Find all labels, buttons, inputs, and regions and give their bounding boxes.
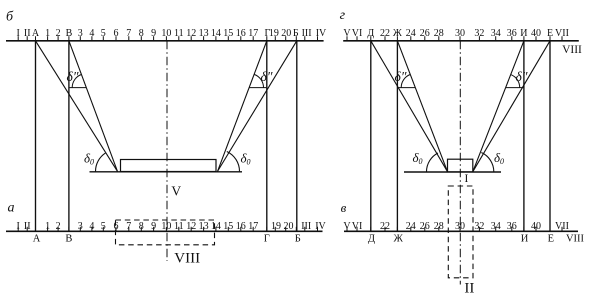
svg-text:δ″: δ″ [67, 69, 79, 84]
svg-text:16: 16 [236, 221, 246, 232]
svg-text:Д: Д [367, 28, 374, 39]
tick 4 bottom-left axis [91, 227, 93, 232]
top-right scale axis [343, 40, 579, 42]
svg-text:36: 36 [507, 221, 517, 232]
tick 26 top-right axis [424, 36, 426, 41]
svg-text:1: 1 [45, 28, 50, 39]
tick V top-right axis [346, 36, 348, 41]
svg-text:3: 3 [78, 28, 83, 39]
svg-text:VIII: VIII [562, 44, 582, 56]
tick 15 top-left axis [227, 36, 229, 41]
tick 32 bottom-right axis [478, 227, 480, 232]
svg-text:19: 19 [269, 28, 279, 39]
svg-text:VII: VII [555, 28, 569, 39]
vertical line Zh(cyr) [396, 41, 398, 232]
tick 16 bottom-left axis [240, 227, 242, 232]
svg-text:δ″: δ″ [395, 69, 407, 84]
svg-text:I: I [17, 28, 20, 39]
tick 6 top-left axis [115, 36, 117, 41]
svg-text:II: II [464, 280, 474, 296]
tick II top-left axis [26, 36, 28, 41]
svg-text:III: III [302, 28, 312, 39]
tick 26 bottom-right axis [424, 227, 426, 232]
svg-text:В: В [65, 234, 72, 245]
tick Г bottom-left axis [266, 227, 268, 232]
svg-text:36: 36 [507, 28, 517, 39]
svg-text:I: I [17, 221, 20, 232]
tick 19 top-left axis [274, 36, 276, 41]
arc delta'' at I [511, 75, 520, 88]
svg-text:11: 11 [174, 28, 184, 39]
svg-text:40: 40 [531, 28, 541, 39]
arc delta0 left r-half [427, 153, 438, 172]
tick Ж top-right axis [396, 36, 398, 41]
svg-text:19: 19 [271, 221, 281, 232]
vertical line A [35, 41, 37, 232]
svg-text:δ0: δ0 [240, 151, 250, 167]
bottom-right scale axis [344, 230, 578, 232]
tick 13 bottom-left axis [203, 227, 205, 232]
svg-text:26: 26 [420, 28, 430, 39]
svg-text:26: 26 [420, 221, 430, 232]
arc delta0 left [96, 153, 106, 171]
center dash-dot line right half [459, 41, 461, 285]
svg-text:δ″: δ″ [261, 69, 273, 84]
tick III top-left axis [304, 36, 306, 41]
diagonal A to left corner [36, 41, 118, 172]
svg-text:в: в [341, 200, 347, 215]
svg-text:VII: VII [555, 221, 569, 232]
tick 34 top-right axis [495, 36, 497, 41]
vertical line G(cyr) [266, 41, 268, 232]
svg-text:16: 16 [236, 28, 246, 39]
tick 30 bottom-right axis [459, 227, 461, 232]
tick 8 top-left axis [140, 36, 142, 41]
tick А bottom-left axis [35, 227, 37, 232]
svg-text:10: 10 [161, 28, 171, 39]
tick VI top-right axis [356, 36, 358, 41]
svg-text:V: V [343, 28, 351, 39]
tick 9 bottom-left axis [153, 227, 155, 232]
tick VI bottom-right axis [356, 227, 358, 232]
svg-text:15: 15 [223, 221, 233, 232]
svg-text:32: 32 [474, 28, 484, 39]
svg-text:И: И [521, 234, 529, 245]
svg-text:А: А [32, 28, 40, 39]
svg-text:δ0: δ0 [84, 151, 94, 167]
svg-text:VIII: VIII [174, 250, 200, 266]
svg-text:V: V [343, 221, 351, 232]
diagonal E to right corner r-half [473, 41, 550, 172]
vertical line V(cyr) [68, 41, 70, 232]
svg-text:2: 2 [56, 28, 61, 39]
svg-text:δ0: δ0 [412, 150, 422, 166]
svg-text:20: 20 [281, 28, 291, 39]
tick 17 top-left axis [252, 36, 254, 41]
svg-text:9: 9 [151, 28, 156, 39]
arc delta0 right [227, 151, 240, 171]
svg-text:1: 1 [45, 221, 50, 232]
diagonal G to right corner [218, 41, 267, 172]
tick 10 top-left axis [165, 36, 167, 41]
svg-text:9: 9 [151, 221, 156, 232]
tick V bottom-right axis [346, 227, 348, 232]
angle base line at V diag [69, 87, 86, 89]
tick VII top-right axis [561, 36, 563, 41]
svg-text:IV: IV [315, 221, 326, 232]
tick И top-right axis [523, 36, 525, 41]
tick В top-left axis [68, 36, 70, 41]
svg-text:34: 34 [491, 28, 501, 39]
svg-text:Г: Г [264, 234, 270, 245]
svg-text:13: 13 [199, 221, 209, 232]
svg-text:И: И [520, 28, 527, 39]
tick 30 top-right axis [459, 36, 461, 41]
bottom-left scale axis [6, 230, 323, 232]
svg-text:3: 3 [78, 221, 83, 232]
tick И bottom-right axis [523, 227, 525, 232]
svg-text:24: 24 [406, 28, 416, 39]
arc delta0 right r-half [481, 153, 493, 172]
tick 17 bottom-left axis [252, 227, 254, 232]
svg-text:7: 7 [126, 221, 131, 232]
svg-text:Е: Е [548, 234, 554, 245]
svg-text:I: I [464, 173, 468, 185]
tick 12 bottom-left axis [190, 227, 192, 232]
tall dashed box II [448, 186, 473, 278]
tick 24 bottom-right axis [410, 227, 412, 232]
svg-text:Б: Б [293, 28, 299, 39]
svg-text:20: 20 [284, 221, 294, 232]
tick 4 top-left axis [91, 36, 93, 41]
reed rectangle right half [448, 159, 473, 172]
svg-text:Ж: Ж [393, 28, 402, 39]
tick 19 bottom-left axis [274, 227, 276, 232]
svg-text:22: 22 [380, 221, 390, 232]
tick 8 bottom-left axis [140, 227, 142, 232]
center dash-dot line left half [166, 41, 168, 261]
tick 14 bottom-left axis [215, 227, 217, 232]
tick 2 top-left axis [57, 36, 59, 41]
arc delta'' at Zh [401, 75, 410, 88]
tick Б top-left axis [295, 36, 297, 41]
svg-text:6: 6 [114, 28, 119, 39]
tick 24 top-right axis [410, 36, 412, 41]
tick В bottom-left axis [68, 227, 70, 232]
svg-text:14: 14 [211, 221, 221, 232]
arc delta'' at G [254, 75, 263, 88]
tick 22 bottom-right axis [384, 227, 386, 232]
tick 36 bottom-right axis [511, 227, 513, 232]
svg-text:24: 24 [406, 221, 416, 232]
tick Е bottom-right axis [549, 227, 551, 232]
tick 2 bottom-left axis [57, 227, 59, 232]
tick 5 bottom-left axis [102, 227, 104, 232]
tick 20 bottom-left axis [285, 227, 287, 232]
tick 16 top-left axis [240, 36, 242, 41]
svg-text:Б: Б [295, 234, 301, 245]
diagonal V to left corner [69, 41, 118, 172]
tick Д bottom-right axis [370, 227, 372, 232]
svg-text:14: 14 [211, 28, 221, 39]
tick 9 top-left axis [153, 36, 155, 41]
diagonal Zh to left corner r-half [397, 41, 447, 172]
diagonal I to right corner r-half [473, 41, 524, 172]
tick I bottom-left axis [17, 227, 19, 232]
svg-text:4: 4 [89, 28, 94, 39]
svg-text:34: 34 [491, 221, 501, 232]
tick 34 bottom-right axis [495, 227, 497, 232]
tick 40 bottom-right axis [535, 227, 537, 232]
svg-text:22: 22 [380, 28, 390, 39]
svg-text:VI: VI [352, 221, 363, 232]
tick 15 bottom-left axis [227, 227, 229, 232]
tick IV bottom-left axis [317, 227, 319, 232]
svg-text:7: 7 [126, 28, 131, 39]
svg-text:17: 17 [248, 28, 258, 39]
arc delta'' at V [72, 74, 81, 87]
tick VII bottom-right axis [561, 227, 563, 232]
tick 36 top-right axis [511, 36, 513, 41]
svg-text:28: 28 [434, 28, 444, 39]
svg-text:12: 12 [186, 221, 196, 232]
svg-text:15: 15 [223, 28, 233, 39]
svg-text:VIII: VIII [566, 234, 585, 245]
diagonal B to right corner [218, 41, 297, 172]
baseline right half [404, 171, 501, 173]
tick 11 bottom-left axis [178, 227, 180, 232]
svg-text:40: 40 [531, 221, 541, 232]
svg-text:а: а [8, 200, 15, 215]
svg-text:А: А [33, 234, 41, 245]
svg-text:В: В [66, 28, 73, 39]
tick Б bottom-left axis [295, 227, 297, 232]
svg-text:Е: Е [547, 28, 553, 39]
vertical line D(cyr) [370, 41, 372, 232]
tick I top-left axis [17, 36, 19, 41]
tick 28 bottom-right axis [438, 227, 440, 232]
svg-text:г: г [340, 8, 346, 23]
tick III bottom-left axis [304, 227, 306, 232]
tick Ж bottom-right axis [396, 227, 398, 232]
tick 22 top-right axis [384, 36, 386, 41]
svg-text:Ж: Ж [393, 234, 403, 245]
svg-text:II: II [24, 28, 31, 39]
angle base line at G diag [250, 87, 267, 89]
tick 6 bottom-left axis [115, 227, 117, 232]
tick 1 top-left axis [47, 36, 49, 41]
vertical line E(cyr) [549, 41, 551, 232]
svg-text:δ″: δ″ [516, 69, 528, 84]
svg-text:б: б [6, 10, 14, 25]
svg-text:12: 12 [186, 28, 196, 39]
svg-text:V: V [171, 184, 181, 199]
tick Г top-left axis [266, 36, 268, 41]
tick Е top-right axis [549, 36, 551, 41]
svg-text:2: 2 [56, 221, 61, 232]
tick 10 bottom-left axis [165, 227, 167, 232]
tick II bottom-left axis [26, 227, 28, 232]
tick 3 bottom-left axis [79, 227, 81, 232]
tick 28 top-right axis [438, 36, 440, 41]
reed rectangle left half [121, 160, 217, 172]
tick Д top-right axis [370, 36, 372, 41]
tick 1 bottom-left axis [47, 227, 49, 232]
svg-text:II: II [24, 221, 31, 232]
svg-text:VI: VI [352, 28, 363, 39]
svg-text:IV: IV [316, 28, 327, 39]
vertical line I(cyr) [523, 41, 525, 232]
svg-text:30: 30 [455, 28, 465, 39]
svg-text:III: III [301, 221, 311, 232]
tick 11 top-left axis [178, 36, 180, 41]
svg-text:17: 17 [248, 221, 258, 232]
svg-text:11: 11 [174, 221, 184, 232]
dashed box VIII [116, 220, 215, 245]
svg-text:Д: Д [368, 234, 375, 245]
svg-text:8: 8 [139, 221, 144, 232]
vertical line B(cyr) [296, 41, 298, 232]
tick А top-left axis [35, 36, 37, 41]
svg-text:10: 10 [161, 221, 171, 232]
tick 7 top-left axis [128, 36, 130, 41]
tick 7 bottom-left axis [128, 227, 130, 232]
tick 5 top-left axis [102, 36, 104, 41]
diagonal D to left corner r-half [371, 41, 448, 172]
svg-text:13: 13 [199, 28, 209, 39]
tick 32 top-right axis [478, 36, 480, 41]
angle base line at I diag [506, 87, 524, 89]
svg-text:δ0: δ0 [494, 150, 504, 166]
tick 20 top-left axis [285, 36, 287, 41]
baseline left half [90, 171, 243, 173]
tick 3 top-left axis [79, 36, 81, 41]
tick 13 top-left axis [203, 36, 205, 41]
angle base line at Zh diag [398, 87, 415, 89]
svg-text:32: 32 [474, 221, 484, 232]
svg-text:4: 4 [89, 221, 94, 232]
svg-text:28: 28 [434, 221, 444, 232]
svg-text:8: 8 [139, 28, 144, 39]
tick 14 top-left axis [215, 36, 217, 41]
tick IV top-left axis [317, 36, 319, 41]
tick 40 top-right axis [535, 36, 537, 41]
tick 12 top-left axis [190, 36, 192, 41]
svg-text:5: 5 [101, 28, 106, 39]
svg-text:5: 5 [101, 221, 106, 232]
top-left scale axis [6, 40, 324, 42]
